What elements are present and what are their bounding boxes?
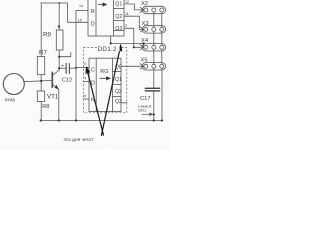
svg-text:Q3: Q3 <box>115 99 122 105</box>
svg-text:R9: R9 <box>43 32 51 39</box>
svg-text:Q2: Q2 <box>115 89 122 95</box>
svg-text:+: + <box>61 63 64 69</box>
svg-text:DD1: DD1 <box>138 108 147 113</box>
svg-text:X2: X2 <box>141 1 148 7</box>
svg-text:VT1: VT1 <box>47 94 59 101</box>
svg-text:это для чего?: это для чего? <box>64 137 94 143</box>
svg-text:D: D <box>91 21 95 27</box>
svg-text:X4: X4 <box>141 38 149 44</box>
svg-text:RG: RG <box>100 69 108 75</box>
svg-text:Q0: Q0 <box>115 65 122 71</box>
svg-text:5: 5 <box>84 62 86 66</box>
svg-text:R8: R8 <box>42 104 49 110</box>
svg-text:Q1: Q1 <box>115 77 122 83</box>
svg-text:12: 12 <box>125 0 129 4</box>
svg-text:6: 6 <box>84 94 86 98</box>
svg-text:D: D <box>91 81 95 87</box>
svg-text:вход: вход <box>5 97 15 102</box>
svg-text:2: 2 <box>125 24 127 28</box>
svg-text:R7: R7 <box>39 50 47 57</box>
svg-text:C12: C12 <box>62 77 72 83</box>
svg-text:11: 11 <box>125 12 129 16</box>
svg-text:R: R <box>91 9 95 15</box>
svg-text:C17: C17 <box>140 96 151 102</box>
svg-text:Q3: Q3 <box>115 26 122 32</box>
svg-text:C: C <box>91 68 95 74</box>
svg-text:X3: X3 <box>142 21 149 27</box>
svg-text:X5: X5 <box>141 58 148 64</box>
svg-text:Q1: Q1 <box>115 2 122 8</box>
svg-text:14: 14 <box>79 4 83 8</box>
svg-text:DD1.2: DD1.2 <box>98 46 117 53</box>
svg-text:4: 4 <box>84 77 86 81</box>
svg-text:R: R <box>91 97 95 103</box>
svg-text:Q2: Q2 <box>115 14 122 20</box>
svg-text:15: 15 <box>78 19 82 23</box>
